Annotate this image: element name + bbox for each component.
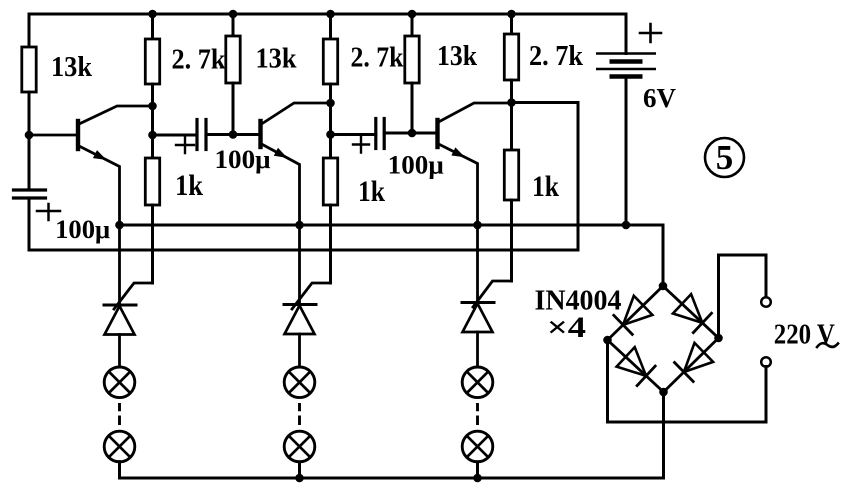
svg-text:100μ: 100μ	[388, 151, 444, 180]
resistor 13k (stage2 base)	[226, 14, 240, 135]
label x4	[547, 311, 586, 344]
junction dot: top rail / 13k stage2	[229, 10, 238, 19]
svg-text:220 V: 220 V	[774, 319, 835, 351]
junction dot: rail Q2 emitter	[295, 221, 304, 230]
wire: dashed link lamp chain 2	[298, 403, 301, 425]
junction dot: top rail / 13k stage3	[408, 10, 417, 19]
label 100u (C2)	[215, 145, 271, 174]
svg-text:×4: ×4	[547, 311, 586, 344]
label 1k (stage2)	[358, 175, 385, 208]
SCR1 (thyristor, stage1)	[104, 225, 136, 367]
wire: SCR1 gate lead	[114, 283, 153, 309]
resistor 13k (stage1 base)	[22, 14, 36, 135]
label 220V	[774, 319, 835, 351]
capacitor C2 + polarity mark	[176, 137, 194, 153]
junction dot: Q3 base node (13k)	[408, 129, 417, 138]
wire: lamp 1 to bottom rail	[118, 462, 121, 478]
wire: lamp 2 to bottom rail	[298, 462, 301, 478]
SCR3 (thyristor, stage3)	[462, 225, 494, 367]
label 1k (stage1)	[175, 169, 203, 202]
figure number (5) circled	[705, 138, 744, 177]
junction dot: Q3 collector node	[507, 98, 516, 107]
label 2.7k (stage1)	[172, 45, 226, 76]
diode D2 (bridge top-right)	[663, 286, 719, 338]
wire: SCR2 gate lead	[292, 283, 331, 309]
wire: SCR3 gate lead	[473, 281, 512, 307]
wire: rail to bridge top	[626, 225, 663, 286]
svg-text:2. 7k: 2. 7k	[529, 41, 583, 72]
wire: +6V top rail	[29, 13, 626, 16]
capacitor C3 100u (Q2 collector to Q3 base)	[331, 119, 438, 149]
label 100u (C1)	[55, 215, 110, 244]
label 2.7k (stage2)	[351, 43, 404, 74]
lamp L2a (upper)	[284, 367, 315, 398]
junction dot: rail battery negative	[622, 221, 631, 230]
lamp L1b (lower)	[104, 431, 135, 462]
svg-text:1k: 1k	[532, 170, 559, 203]
junction dot: top rail / 2.7k stage3	[507, 10, 516, 19]
label 13k (stage2)	[256, 44, 297, 75]
label 2.7k (stage3)	[529, 41, 583, 72]
junction dot: stage2 collector/cap tap	[326, 130, 335, 139]
lamp L3b (lower)	[462, 431, 493, 462]
junction dot: Q2 collector node	[326, 99, 335, 108]
resistor 2.7k (stage3 collector)	[504, 14, 518, 103]
resistor 2.7k (stage2 collector)	[323, 14, 337, 103]
svg-text:13k: 13k	[256, 44, 297, 75]
junction dot: bridge top node	[659, 282, 668, 291]
battery + polarity mark	[640, 24, 661, 42]
label 6V	[643, 83, 677, 113]
svg-text:13k: 13k	[51, 52, 92, 83]
SCR2 (thyristor, stage2)	[284, 225, 316, 367]
junction dot: bridge left node	[603, 336, 612, 345]
transistor Q2 (NPN)	[261, 103, 331, 225]
junction dot: bridge bottom node	[659, 388, 668, 397]
svg-text:5: 5	[716, 138, 734, 177]
capacitor C1 + polarity mark	[37, 204, 60, 220]
lamp L3a (upper)	[462, 367, 493, 398]
junction dot: stage1 collector/cap tap	[148, 131, 157, 140]
wire: lamp 3 to bottom rail	[476, 462, 479, 478]
svg-text:1k: 1k	[175, 169, 203, 202]
diode D3 (bridge bottom-left)	[608, 340, 664, 392]
capacitor C2 100u (Q1 collector to Q2 base)	[153, 120, 261, 150]
diode D1 (bridge top-left)	[608, 286, 664, 340]
wire: emitter/negative rail	[120, 224, 627, 227]
junction dot: bridge right node	[714, 334, 723, 343]
resistor 13k (stage3 base)	[405, 14, 419, 133]
junction dot: bottom rail lamp3	[473, 474, 482, 483]
wire: bridge right node to upper terminal	[719, 255, 767, 338]
terminal (lower 220V)	[761, 357, 771, 367]
label IN4004	[535, 285, 622, 317]
svg-text:100μ: 100μ	[215, 145, 271, 174]
lamp L1a (upper)	[104, 367, 135, 398]
capacitor C3 + polarity mark	[353, 137, 369, 153]
svg-text:13k: 13k	[437, 41, 477, 72]
junction dot: Q2 base node (13k)	[229, 130, 238, 139]
transistor Q3 (NPN)	[438, 103, 512, 225]
terminal (upper 220V)	[761, 297, 771, 307]
junction dot: Q1 collector node	[148, 102, 157, 111]
junction dot: Q1 base node	[25, 131, 34, 140]
resistor 1k (stage1 gate)	[145, 135, 159, 283]
label AC tilde under V	[817, 343, 838, 347]
battery B1 6V	[596, 14, 656, 225]
wire: dashed link lamp chain 3	[476, 403, 479, 425]
lamp L2b (lower)	[284, 431, 315, 462]
label 13k (stage1)	[51, 52, 92, 83]
wire: feedback line (Q3 collector to C1)	[29, 103, 578, 251]
label 1k (stage3)	[532, 170, 559, 203]
junction dot: top rail / 2.7k stage2	[326, 10, 335, 19]
wire: stage2 collector column	[329, 103, 332, 135]
junction dot: top rail / 2.7k stage1	[148, 10, 157, 19]
wire: dashed link lamp chain 1	[118, 403, 121, 425]
junction dot: rail Q3 emitter	[473, 221, 482, 230]
diode D4 (bridge bottom-right)	[664, 338, 719, 392]
capacitor C1 100u (feedback to Q1 base)	[14, 135, 46, 250]
svg-text:1k: 1k	[358, 175, 385, 208]
junction dot: bottom rail lamp2	[295, 474, 304, 483]
label 13k (stage3)	[437, 41, 477, 72]
transistor Q1 (NPN)	[29, 106, 153, 225]
svg-text:100μ: 100μ	[55, 215, 110, 244]
wire: stage1 collector column	[151, 106, 154, 135]
svg-text:6V: 6V	[643, 83, 677, 113]
resistor 1k (stage2 gate)	[323, 135, 337, 284]
wire: bottom rail (bridge + to lamps)	[120, 392, 664, 478]
svg-text:2. 7k: 2. 7k	[351, 43, 404, 74]
resistor 2.7k (stage1 collector)	[145, 14, 159, 106]
label 100u (C3)	[388, 151, 444, 180]
resistor 1k (stage3 gate)	[504, 103, 518, 282]
wire: lower terminal to bridge left node	[608, 340, 767, 422]
junction dot: rail Q1 emitter	[115, 221, 124, 230]
svg-text:2. 7k: 2. 7k	[172, 45, 226, 76]
